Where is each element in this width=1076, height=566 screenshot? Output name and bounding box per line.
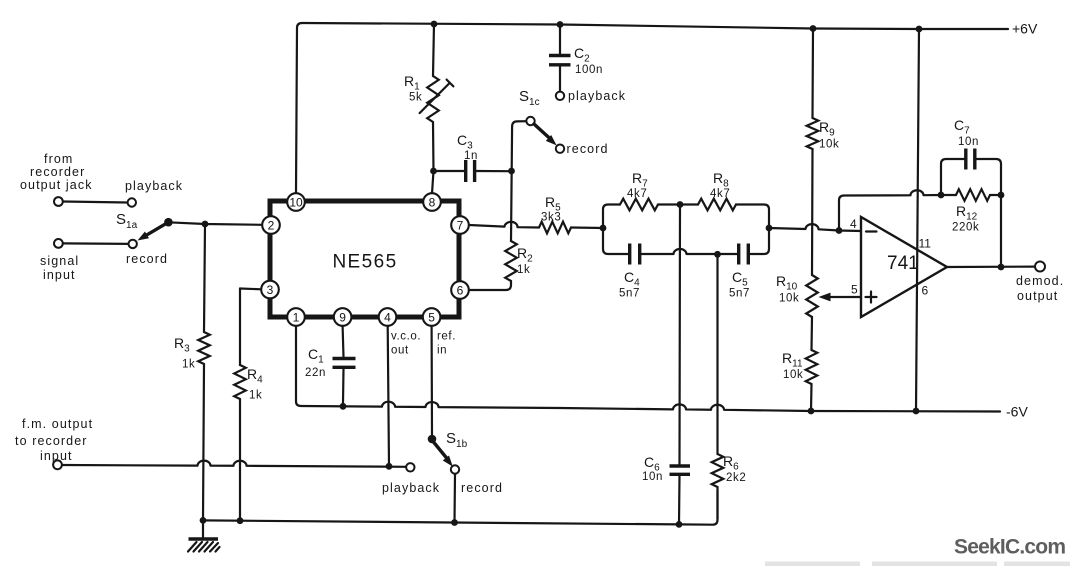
svg-text:10k: 10k [783,369,803,381]
resistor R8 [698,199,736,211]
svg-text:1: 1 [293,310,300,324]
pin 1 [287,308,305,326]
wire R11 bottom lead [810,384,813,411]
bottom edge artifacts [765,562,1070,566]
wire pin 3 to R4 [240,287,261,290]
op-amp U2 741 [861,217,947,317]
svg-text:10: 10 [289,195,303,209]
junction f.m./pin4 [386,463,393,470]
svg-text:100n: 100n [575,64,603,76]
resistor R2 [505,241,517,281]
wire R5 right lead [571,226,603,229]
wire C4/C5 junction down to R6 [716,254,718,454]
svg-text:741: 741 [887,253,919,274]
wire R4 top lead [239,289,241,366]
wire R12 left lead [941,194,956,196]
pin 8 [423,193,441,211]
svg-text:9: 9 [339,310,346,324]
wire R12 right lead [990,194,1001,196]
svg-text:4: 4 [384,310,391,324]
svg-text:record: record [126,252,168,266]
pin 10 [287,193,305,211]
svg-text:5n7: 5n7 [729,288,750,300]
pin 7 [451,216,469,234]
svg-text:f.m. output: f.m. output [22,417,93,431]
svg-text:playback: playback [125,179,183,193]
NE565 U1 [270,201,459,317]
svg-text:5: 5 [428,310,435,324]
junction output/feedback [998,264,1005,271]
svg-text:4k7: 4k7 [710,188,730,200]
junction C6/bottom rail [676,521,683,528]
junction C5/R6 [714,251,721,258]
junction C3 right [508,168,515,175]
wire to record contact [63,242,128,245]
capacitor C2 [559,25,561,54]
svg-text:demod.: demod. [1016,274,1064,288]
wire R9 to R10 [811,149,814,275]
junction op-amp inverting input node [836,227,843,234]
junction S1b/bottom rail [451,519,458,526]
junction R11/-6V [808,408,815,415]
potentiometer R10 [806,275,818,317]
wire pin 6 to R2 [469,281,511,290]
svg-text:v.c.o.: v.c.o. [391,331,421,343]
svg-text:record: record [461,481,503,495]
capacitor C5 [737,244,740,265]
resistor R12 [956,189,990,201]
svg-text:signal: signal [40,254,79,268]
svg-text:recorder: recorder [30,165,85,179]
wire R1 top lead [433,24,434,76]
svg-text:5n7: 5n7 [619,288,640,300]
svg-text:from: from [44,152,73,166]
wire S1a to pin 2 [168,222,262,225]
wire R1 bottom lead [432,122,434,194]
svg-text:6: 6 [457,283,464,297]
switch S1b playback contact [406,463,414,471]
capacitor C7 bracket right [977,159,1002,195]
wire R7/R8 junction down to C6 [678,205,681,466]
wire f.m. output line [62,461,406,467]
wire filter left bracket down [603,228,628,254]
svg-text:5: 5 [851,283,858,297]
wire main line to op-amp with hop over R9/R10 [769,224,861,231]
wire R10 to R11 [810,317,813,350]
pin 9 [334,308,352,326]
svg-text:10k: 10k [819,139,839,151]
junction R1/C3 [430,168,437,175]
junction filter left node [600,225,607,232]
capacitor C4 [628,244,631,265]
wire bottom rail [203,490,718,525]
junction -6V/supply [913,408,920,415]
svg-text:4: 4 [850,217,857,231]
junction +6V/supply [916,26,923,33]
resistor R5 [539,222,571,234]
junction +6V/R9 [810,25,817,32]
svg-text:11: 11 [919,237,932,251]
svg-text:playback: playback [382,481,440,495]
pin 3 [261,281,279,299]
svg-text:input: input [43,268,76,282]
wire record contact to bottom rail [453,474,456,523]
ground [202,520,204,539]
svg-text:SeekIC.com: SeekIC.com [954,536,1066,559]
wire R4 bottom lead [239,399,241,521]
pin 6 [451,281,469,299]
resistor R1 [427,76,439,122]
wire 741 supply line [916,29,919,411]
wire +6V rail [302,23,1008,29]
junction filter right node [766,225,773,232]
junction +6V/C2 [557,21,564,28]
svg-text:10n: 10n [958,136,979,148]
capacitor C3 [437,170,464,172]
junction S1a/R3 [202,221,209,228]
svg-text:in: in [437,345,447,357]
svg-text:4k7: 4k7 [627,188,647,200]
svg-text:6: 6 [922,284,929,298]
svg-text:10n: 10n [642,471,663,483]
wire op-amp output [947,266,1035,269]
svg-text:220k: 220k [952,222,979,234]
resistor R6 [712,454,724,487]
svg-text:1k: 1k [182,359,195,371]
resistor R4 [234,365,246,399]
switch S1c playback contact [556,92,564,100]
svg-text:-6V: -6V [1006,404,1028,420]
wire pin 5 ref. in [431,326,434,436]
input terminal: signal input [54,239,63,248]
junction R3/ground [200,517,207,524]
resistor R9 [807,118,819,149]
svg-text:8: 8 [429,195,436,209]
svg-text:output: output [1017,289,1058,303]
svg-text:ref.: ref. [437,331,456,343]
junction R7/R8 [677,201,684,208]
svg-text:3: 3 [267,283,274,297]
pin 2 [262,216,280,234]
wire pin10 to +6V rail [296,23,302,193]
wire R7 to R8 [658,203,698,205]
wire pin 4 v.c.o. out [388,326,389,466]
resistor R11 [806,350,818,384]
pin 5 [423,308,441,326]
svg-text:+6V: +6V [1012,21,1038,37]
switch S1b record contact [451,465,459,473]
wire feedback with hop over supply [839,190,941,230]
wire R9 top lead [811,29,814,119]
terminal demod. output [1035,262,1045,272]
capacitor C7 [964,149,967,170]
svg-text:3k3: 3k3 [541,212,561,224]
capacitor C1 [333,357,356,360]
wire C4 to C5 with hop [642,249,738,254]
junction C1/-6V [340,403,347,410]
wire filter right bracket [736,205,769,255]
svg-text:1k: 1k [517,264,530,276]
wire feedback down to output [1000,195,1002,267]
switch S1a record contact [129,240,137,248]
wire S1c common to C3/R2 node [511,121,526,241]
resistor R7 [620,199,658,211]
wire pin 9 to C1 [342,326,345,357]
svg-text:2: 2 [268,218,275,232]
capacitor C6 [670,464,691,467]
svg-text:out: out [391,345,409,357]
svg-text:1k: 1k [249,390,262,402]
svg-text:1n: 1n [464,150,478,162]
svg-text:record: record [567,142,609,156]
pin 4 [379,308,397,326]
svg-text:NE565: NE565 [332,252,397,273]
svg-text:to recorder: to recorder [15,434,88,448]
svg-text:10k: 10k [779,293,799,305]
svg-text:2k2: 2k2 [726,472,746,484]
resistor R3 [198,332,210,364]
svg-text:playback: playback [568,89,626,103]
capacitor C7 bracket left [941,159,964,195]
svg-text:5k: 5k [409,92,422,104]
junction R12/C7 right [998,192,1005,199]
wire R3 bottom lead [203,364,204,520]
junction R12/C7 left [938,192,945,199]
wire R10 wiper to op-amp + input [827,296,861,298]
svg-text:22n: 22n [305,367,326,379]
wire R3 top lead [204,224,205,332]
wire to playback contact [63,202,127,203]
junction +6V/R1 [431,21,438,28]
junction R4/bottom rail [237,517,244,524]
wire pin 1 down and -6V rail [296,326,1000,412]
svg-text:output jack: output jack [20,178,93,192]
wire pin 7 to R5 with hop over R2 vertical [469,222,539,228]
wire filter left bracket up [603,205,620,229]
svg-text:7: 7 [457,218,464,232]
switch S1a playback contact [128,198,136,206]
